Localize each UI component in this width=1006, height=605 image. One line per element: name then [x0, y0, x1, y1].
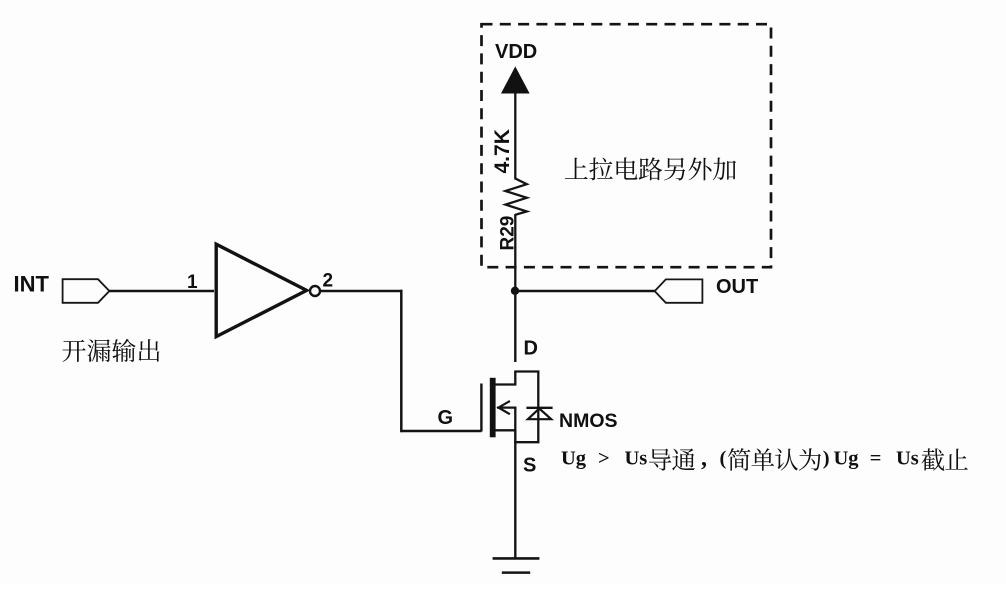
- transistor Q1 NMOS: body arrow stub: [497, 406, 516, 408]
- svg-text:2: 2: [323, 271, 334, 292]
- svg-text:Ug: Ug: [561, 448, 587, 470]
- svg-text:=: =: [870, 448, 882, 470]
- wire node to OUT port: [515, 290, 655, 292]
- annotation 简单认为: [728, 448, 821, 471]
- inverter U1 triangle: [216, 244, 306, 336]
- svg-text:OUT: OUT: [716, 276, 758, 298]
- wire horizontal to gate: [401, 430, 481, 433]
- dashed box pull-up circuit: [482, 24, 772, 267]
- svg-text:(: (: [720, 448, 727, 470]
- wire resistor to output node: [514, 214, 516, 292]
- bottom white strip: [0, 583, 1006, 605]
- inverter output bubble: [310, 286, 320, 296]
- svg-text:,: ,: [701, 446, 707, 472]
- port INT: [63, 279, 110, 303]
- transistor Q1 NMOS: channel bar: [490, 378, 496, 438]
- svg-text:Ug: Ug: [834, 448, 860, 470]
- wire VDD arrow to resistor: [514, 92, 516, 180]
- resistor R29 zigzag: [506, 179, 527, 215]
- svg-text:4.7K: 4.7K: [491, 129, 514, 173]
- svg-text:D: D: [524, 338, 538, 360]
- transistor Q1 NMOS: body diode cathode bar: [526, 407, 552, 409]
- text 开漏输出 (open-drain output): [62, 339, 159, 362]
- ground symbol: [493, 557, 540, 560]
- svg-text:NMOS: NMOS: [559, 410, 618, 432]
- transistor Q1 NMOS: drain pin segment: [496, 372, 516, 385]
- transistor Q1 NMOS: gate line: [480, 384, 482, 432]
- transistor Q1 NMOS: body diode triangle: [528, 409, 551, 420]
- transistor Q1 NMOS: body arrow head: [499, 401, 510, 414]
- junction node dot: [511, 287, 519, 295]
- wire inverter output horizontal: [320, 290, 403, 293]
- port OUT: [655, 279, 703, 302]
- wire INT to inverter input: [109, 290, 214, 292]
- power symbol VDD arrow: [502, 68, 529, 94]
- svg-text:Us: Us: [625, 448, 648, 470]
- svg-text:VDD: VDD: [495, 41, 537, 63]
- svg-text:1: 1: [187, 272, 198, 293]
- text 上拉电路另外加 (pull-up circuit added externally): [565, 157, 736, 180]
- wire node down to drain pin: [514, 290, 516, 362]
- transistor Q1 NMOS: body diode branch: [514, 372, 538, 443]
- svg-text:>: >: [598, 448, 610, 470]
- transistor Q1 NMOS: source pin segment: [496, 407, 516, 431]
- svg-text:): ): [823, 448, 830, 470]
- annotation 导通: [649, 448, 695, 470]
- svg-text:INT: INT: [14, 272, 50, 297]
- svg-text:S: S: [523, 455, 536, 477]
- svg-text:G: G: [438, 407, 454, 429]
- annotation 截止: [922, 448, 968, 470]
- svg-text:Us: Us: [896, 448, 919, 470]
- wire vertical down from inverter output: [400, 290, 403, 432]
- wire source to ground: [514, 429, 516, 559]
